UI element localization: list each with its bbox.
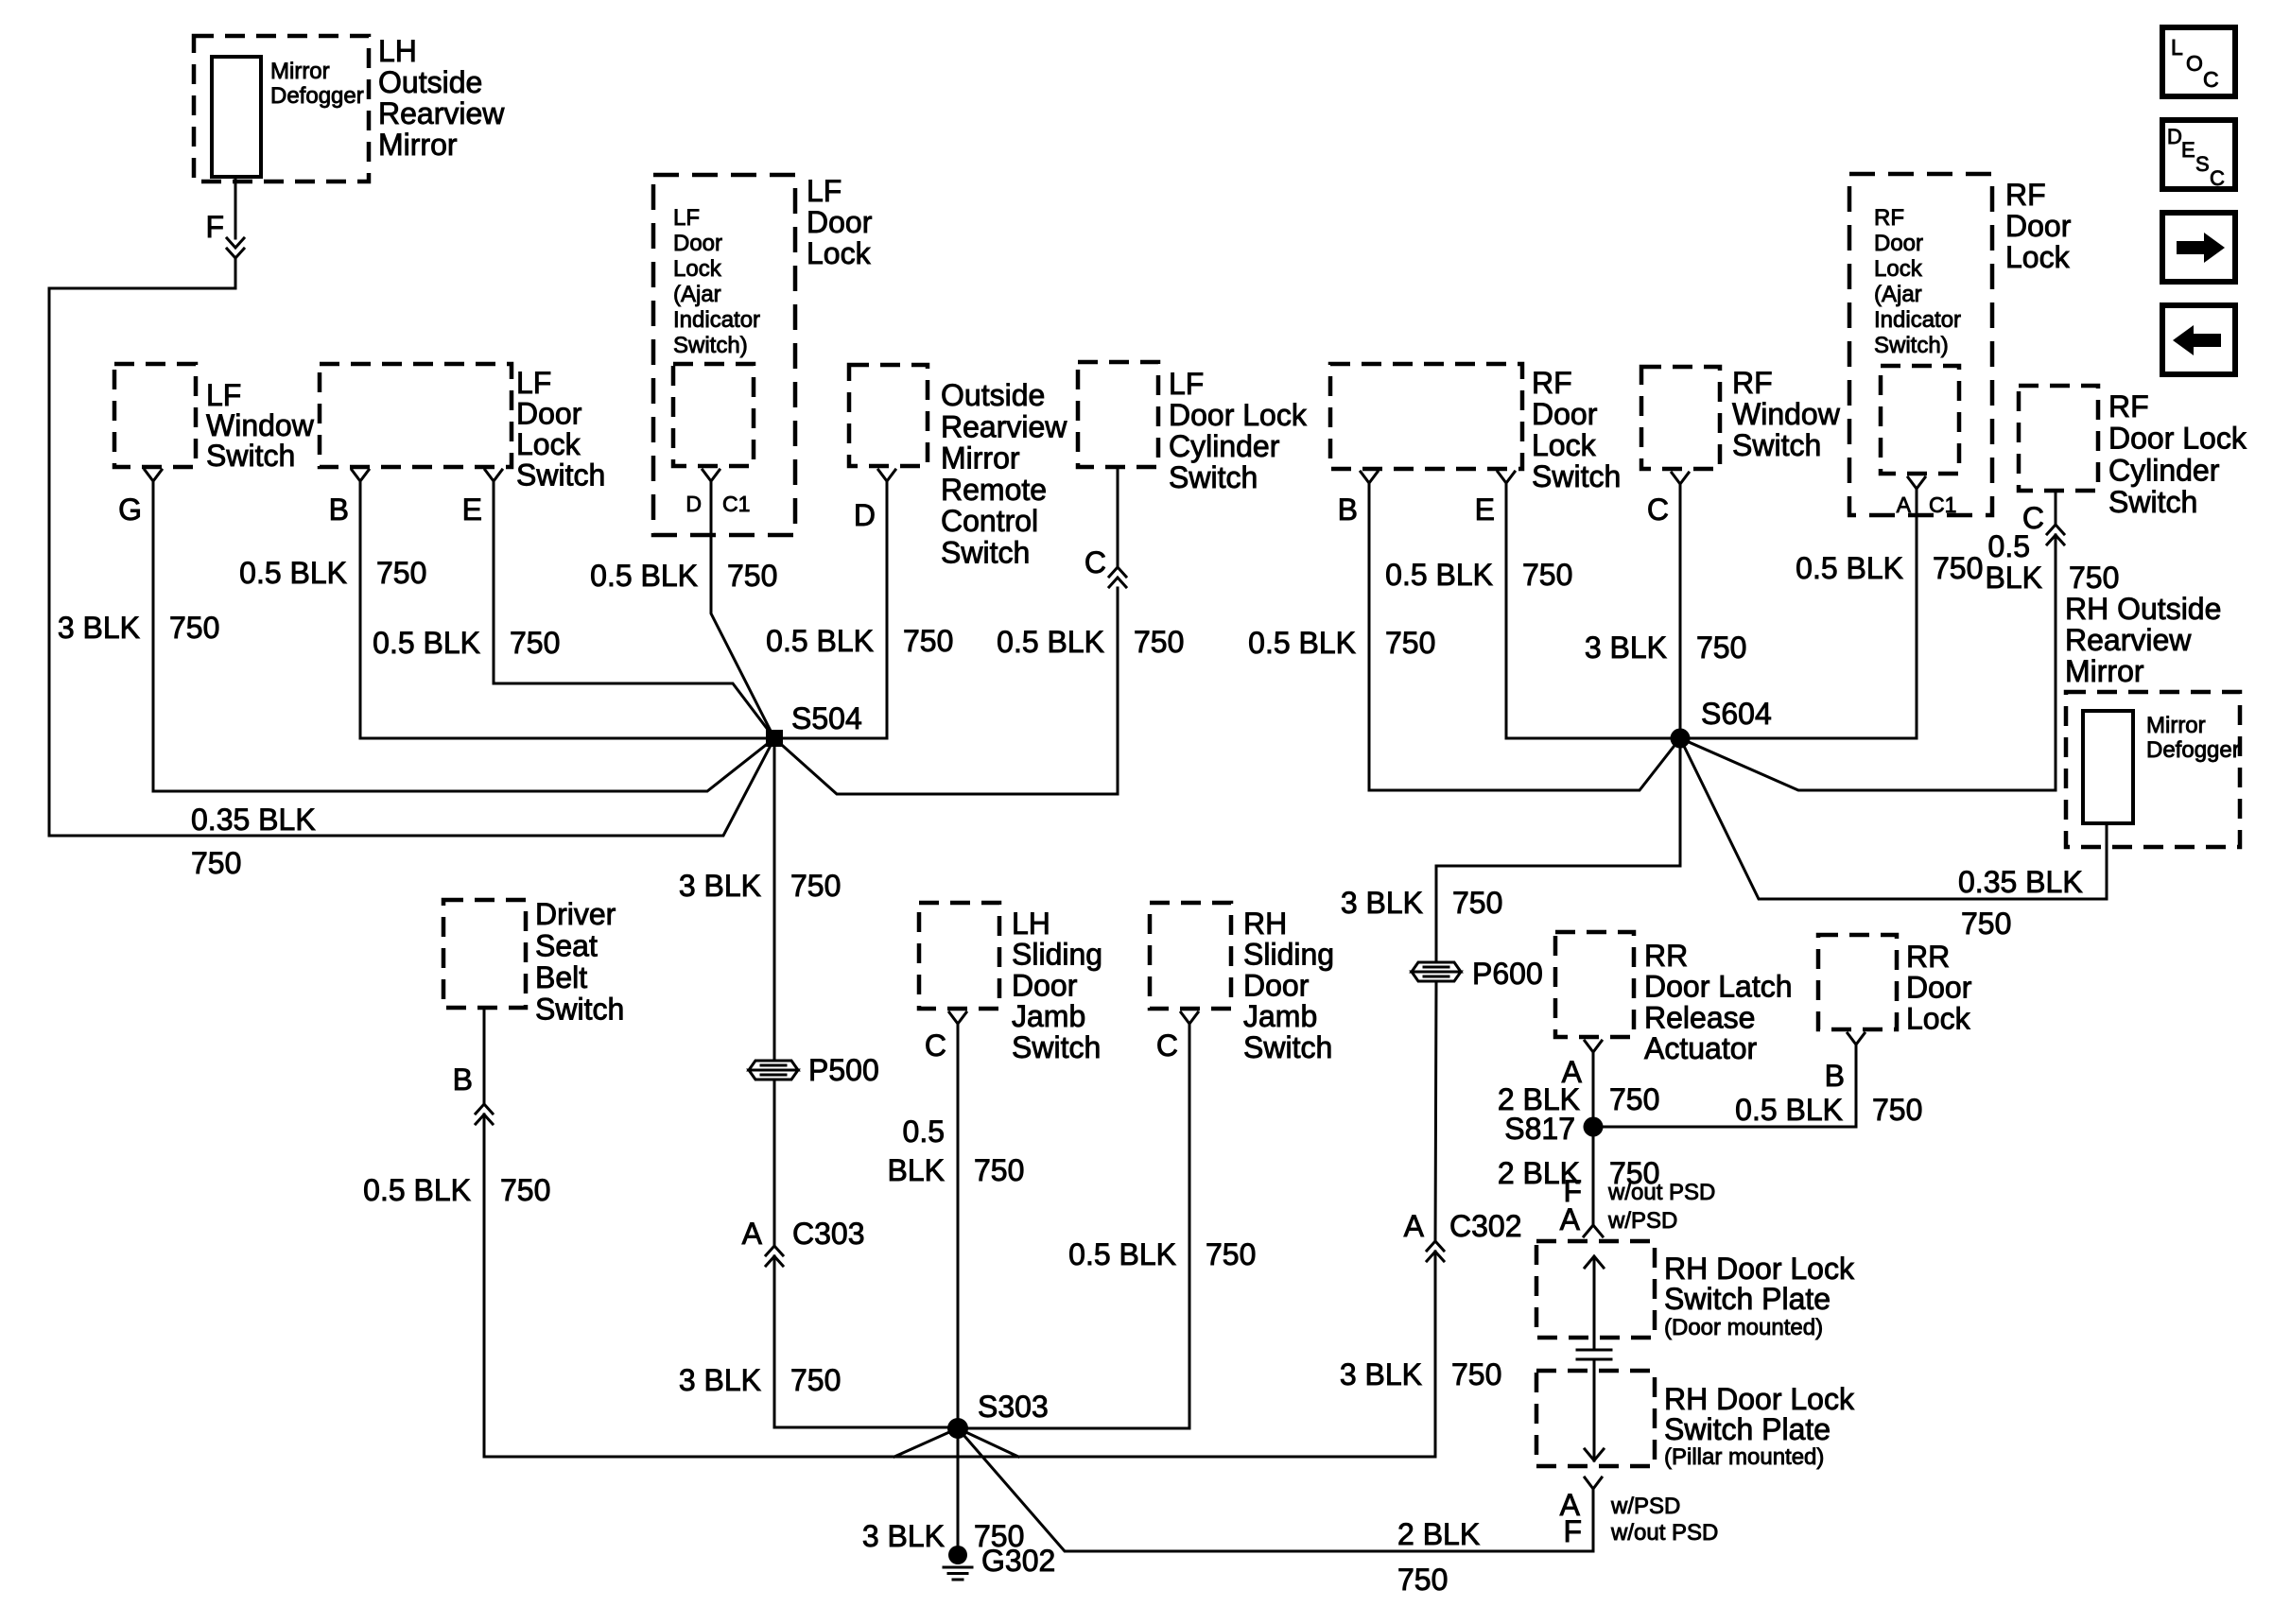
LF Door Lock Cylinder Switch box bbox=[1078, 362, 1308, 494]
wire: RF E to S604 (0.5 BLK 750) bbox=[1385, 484, 1671, 738]
svg-text:RR: RR bbox=[1644, 939, 1688, 973]
svg-text:RF: RF bbox=[1874, 205, 1904, 231]
RF Door Lock Cylinder Switch box bbox=[2019, 386, 2247, 519]
svg-text:Switch): Switch) bbox=[673, 333, 748, 358]
svg-text:S604: S604 bbox=[1701, 697, 1772, 731]
svg-text:750: 750 bbox=[1933, 551, 1983, 585]
svg-text:0.5: 0.5 bbox=[903, 1114, 945, 1149]
pins D / C1 bbox=[685, 470, 750, 516]
wire: LH jamb C to S303 (0.5 BLK 750) bbox=[888, 1025, 1025, 1427]
wire: S504 down 3 BLK 750 bbox=[679, 747, 842, 1060]
svg-text:750: 750 bbox=[2069, 561, 2119, 595]
svg-text:750: 750 bbox=[1385, 626, 1435, 660]
Outside Rearview Mirror Remote Control Switch box bbox=[849, 365, 1067, 570]
svg-text:RF: RF bbox=[1732, 366, 1773, 400]
svg-text:LF: LF bbox=[1169, 367, 1204, 401]
svg-text:0.5 BLK: 0.5 BLK bbox=[997, 625, 1104, 659]
wire: RF window C to S604 (3 BLK 750) bbox=[1585, 485, 1747, 729]
svg-text:Door: Door bbox=[807, 205, 873, 239]
svg-text:Lock: Lock bbox=[807, 236, 872, 270]
pin D (remote control switch) bbox=[854, 470, 895, 532]
svg-text:750: 750 bbox=[1872, 1093, 1922, 1127]
svg-text:Door: Door bbox=[1906, 971, 1972, 1005]
pin C (LH jamb) bbox=[925, 1012, 966, 1063]
svg-text:Mirror: Mirror bbox=[941, 441, 1020, 475]
svg-text:Driver: Driver bbox=[535, 897, 616, 931]
svg-text:Cylinder: Cylinder bbox=[2108, 453, 2220, 487]
svg-text:0.5 BLK: 0.5 BLK bbox=[1735, 1093, 1843, 1127]
svg-text:Defogger: Defogger bbox=[2146, 737, 2240, 763]
svg-text:3 BLK: 3 BLK bbox=[679, 869, 761, 903]
wire: D/C1 to S504 (0.5 BLK 750) bbox=[590, 482, 777, 738]
svg-text:C303: C303 bbox=[792, 1217, 865, 1251]
svg-text:Release: Release bbox=[1644, 1000, 1755, 1034]
svg-text:0.5 BLK: 0.5 BLK bbox=[1796, 551, 1903, 585]
svg-text:0.5 BLK: 0.5 BLK bbox=[766, 624, 874, 658]
RH Sliding Door Jamb Switch box bbox=[1150, 903, 1334, 1064]
svg-text:A: A bbox=[1897, 492, 1912, 517]
svg-text:B: B bbox=[329, 492, 349, 527]
svg-text:RH Outside: RH Outside bbox=[2065, 592, 2221, 626]
svg-text:Door: Door bbox=[1874, 231, 1923, 256]
wire: D to S504 (0.5 BLK 750) bbox=[766, 482, 953, 738]
pin F connector bbox=[205, 210, 244, 258]
svg-text:LH: LH bbox=[378, 34, 417, 68]
wire: S303 to RH door lock plate A/F (2 BLK 750) bbox=[958, 1428, 1593, 1597]
svg-text:L: L bbox=[2171, 35, 2183, 60]
wire: RR door lock B to S817 (0.5 BLK 750) bbox=[1603, 1045, 1922, 1127]
svg-text:Indicator: Indicator bbox=[1874, 307, 1961, 333]
svg-text:Lock: Lock bbox=[1874, 256, 1923, 282]
svg-text:750: 750 bbox=[1522, 558, 1572, 592]
svg-text:0.5 BLK: 0.5 BLK bbox=[373, 626, 480, 660]
svg-text:750: 750 bbox=[1397, 1563, 1448, 1597]
button previous (left arrow) bbox=[2162, 305, 2235, 374]
svg-text:Defogger: Defogger bbox=[270, 83, 364, 109]
svg-text:w/PSD: w/PSD bbox=[1610, 1494, 1680, 1519]
pin E (RF door lock switch) bbox=[1475, 472, 1515, 527]
svg-text:D: D bbox=[2167, 125, 2182, 148]
svg-text:750: 750 bbox=[727, 559, 777, 593]
connector C303 pin A bbox=[742, 1217, 865, 1266]
svg-text:Mirror: Mirror bbox=[2146, 713, 2206, 738]
pin C + inline connector (RF cylinder) bbox=[2022, 501, 2064, 544]
mirror defogger (LH) bbox=[212, 57, 364, 177]
pin C + inline connector bbox=[1084, 545, 1126, 587]
svg-text:Mirror: Mirror bbox=[270, 59, 330, 84]
pin B (RF door lock switch) bbox=[1338, 472, 1378, 527]
svg-text:0.5 BLK: 0.5 BLK bbox=[590, 559, 698, 593]
pin C (RH jamb) bbox=[1156, 1012, 1198, 1063]
wire: P600 to C302 bbox=[1435, 982, 1436, 1241]
wire: B to S504 (0.5 BLK 750) bbox=[239, 482, 774, 738]
svg-text:750: 750 bbox=[1451, 1357, 1501, 1391]
pin B + inline connector bbox=[453, 1063, 493, 1124]
svg-text:RH Door Lock: RH Door Lock bbox=[1664, 1382, 1855, 1416]
svg-text:Door: Door bbox=[1012, 968, 1078, 1002]
pins A / F (w/PSD, w/out PSD) bbox=[1560, 1477, 1719, 1548]
svg-text:C: C bbox=[1084, 545, 1106, 579]
svg-text:LF: LF bbox=[206, 378, 241, 412]
button LOC bbox=[2162, 27, 2235, 96]
svg-text:3 BLK: 3 BLK bbox=[1340, 1357, 1422, 1391]
wire: G to S504 (3 BLK 750) bbox=[58, 482, 774, 791]
svg-text:(Pillar mounted): (Pillar mounted) bbox=[1664, 1444, 1824, 1470]
wire: RF A/C1 to S604 (0.5 BLK 750) bbox=[1690, 490, 1983, 738]
svg-text:Door: Door bbox=[516, 397, 582, 431]
svg-text:Switch: Switch bbox=[1169, 460, 1258, 494]
RF Door Lock Switch box bbox=[1330, 364, 1621, 493]
svg-text:Switch: Switch bbox=[1243, 1030, 1332, 1064]
svg-text:Seat: Seat bbox=[535, 929, 598, 963]
svg-text:C: C bbox=[2203, 67, 2219, 92]
svg-text:A: A bbox=[1404, 1209, 1425, 1243]
svg-text:750: 750 bbox=[1452, 886, 1502, 920]
splice S303 bbox=[947, 1390, 1049, 1439]
svg-text:F: F bbox=[1563, 1514, 1582, 1548]
splice S604 bbox=[1671, 697, 1772, 749]
svg-text:Mirror: Mirror bbox=[378, 128, 458, 162]
svg-text:RR: RR bbox=[1906, 940, 1950, 974]
svg-text:LF: LF bbox=[516, 366, 551, 400]
svg-text:RF: RF bbox=[2005, 178, 2046, 212]
svg-text:B: B bbox=[1825, 1059, 1845, 1093]
svg-text:Sliding: Sliding bbox=[1012, 938, 1102, 972]
svg-text:LH: LH bbox=[1012, 907, 1050, 941]
svg-text:750: 750 bbox=[1609, 1082, 1659, 1116]
svg-text:750: 750 bbox=[790, 1363, 841, 1397]
svg-text:C: C bbox=[2210, 166, 2225, 190]
svg-text:Switch Plate: Switch Plate bbox=[1664, 1282, 1831, 1316]
svg-text:750: 750 bbox=[376, 556, 426, 590]
RH Outside Rearview Mirror box bbox=[2065, 592, 2240, 847]
svg-text:Lock: Lock bbox=[516, 427, 581, 461]
svg-text:F: F bbox=[205, 210, 224, 244]
svg-text:E: E bbox=[462, 492, 482, 527]
LF Door Lock Switch box bbox=[320, 364, 605, 492]
wire: E to S504 (0.5 BLK 750) bbox=[373, 482, 774, 738]
LF Window Switch box bbox=[114, 364, 315, 473]
svg-text:Switch: Switch bbox=[535, 993, 624, 1027]
wire: S604 down to P600 (3 BLK 750) bbox=[1341, 747, 1680, 961]
svg-text:RF: RF bbox=[2108, 389, 2149, 423]
svg-text:LF: LF bbox=[673, 205, 700, 231]
svg-text:750: 750 bbox=[1206, 1237, 1256, 1271]
svg-text:Switch: Switch bbox=[516, 458, 605, 492]
svg-text:750: 750 bbox=[191, 846, 241, 880]
svg-text:Actuator: Actuator bbox=[1644, 1031, 1758, 1065]
svg-text:2 BLK: 2 BLK bbox=[1397, 1517, 1480, 1551]
wire: long lower run with S303 taps bbox=[484, 1428, 1435, 1457]
svg-text:C1: C1 bbox=[1929, 492, 1956, 517]
connector C302 pin A bbox=[1404, 1209, 1522, 1261]
svg-text:750: 750 bbox=[1696, 631, 1746, 665]
svg-text:B: B bbox=[1338, 492, 1358, 527]
svg-text:B: B bbox=[453, 1063, 473, 1097]
wire: cylinder C to S504 (0.5 BLK 750) bbox=[774, 467, 1184, 794]
svg-text:3 BLK: 3 BLK bbox=[58, 611, 140, 645]
RH Door Lock Switch Plate (Door mounted) box bbox=[1536, 1241, 1855, 1340]
wire: LH mirror F to 0.35 BLK run bbox=[49, 177, 235, 836]
svg-text:RH: RH bbox=[1243, 907, 1287, 941]
svg-text:w/PSD: w/PSD bbox=[1607, 1208, 1677, 1234]
svg-text:Outside: Outside bbox=[941, 378, 1045, 412]
svg-text:Cylinder: Cylinder bbox=[1169, 429, 1280, 463]
svg-text:0.5 BLK: 0.5 BLK bbox=[239, 556, 347, 590]
svg-text:0.5 BLK: 0.5 BLK bbox=[1068, 1237, 1176, 1271]
wire: actuator A to S817 (2 BLK 750) bbox=[1498, 1053, 1660, 1117]
wire: seat belt B to S303 run (0.5 BLK 750) bbox=[363, 1008, 550, 1457]
svg-text:Mirror: Mirror bbox=[2065, 654, 2144, 688]
svg-text:O: O bbox=[2186, 51, 2203, 76]
svg-text:Rearview: Rearview bbox=[2065, 623, 2192, 657]
svg-text:Sliding: Sliding bbox=[1243, 938, 1334, 972]
RF Door Lock (Ajar Indicator Switch) box bbox=[1849, 174, 2072, 515]
svg-text:C: C bbox=[925, 1028, 946, 1063]
splice S817 bbox=[1504, 1112, 1603, 1146]
wire: RH jamb C to S303 (0.5 BLK 750) bbox=[968, 1025, 1256, 1428]
svg-text:S303: S303 bbox=[978, 1390, 1049, 1424]
wire: RH defogger to S604 (0.35 BLK 750) bbox=[1680, 738, 2107, 941]
svg-text:Switch: Switch bbox=[1732, 428, 1821, 462]
svg-text:S817: S817 bbox=[1504, 1112, 1575, 1146]
button DESC bbox=[2162, 120, 2235, 190]
wire: C302 to S303 run (3 BLK 750) bbox=[1340, 1252, 1502, 1457]
LH Outside Rearview Mirror box bbox=[194, 34, 505, 181]
svg-text:Lock: Lock bbox=[673, 256, 722, 282]
svg-text:Control: Control bbox=[941, 504, 1038, 538]
inline connector P600 bbox=[1412, 957, 1543, 991]
svg-text:Door: Door bbox=[673, 231, 722, 256]
RR Door Lock box bbox=[1818, 935, 1972, 1035]
svg-text:S: S bbox=[2195, 152, 2210, 176]
svg-text:E: E bbox=[2181, 138, 2195, 162]
svg-text:BLK: BLK bbox=[1986, 561, 2042, 595]
wire: S817 down to switch plate (2 BLK 750) bbox=[1498, 1136, 1660, 1225]
svg-text:P600: P600 bbox=[1472, 957, 1543, 991]
svg-text:Switch: Switch bbox=[2108, 485, 2197, 519]
RH Door Lock Switch Plate (Pillar mounted) box bbox=[1536, 1371, 1855, 1470]
svg-text:G302: G302 bbox=[981, 1544, 1055, 1578]
svg-text:D: D bbox=[685, 492, 702, 516]
svg-text:E: E bbox=[1475, 492, 1495, 527]
wire: P500 to C303 bbox=[679, 1080, 842, 1397]
svg-text:Rearview: Rearview bbox=[378, 96, 505, 130]
svg-text:A: A bbox=[742, 1217, 763, 1251]
svg-text:Lock: Lock bbox=[1532, 428, 1597, 462]
svg-text:Lock: Lock bbox=[1906, 1001, 1971, 1035]
svg-text:Indicator: Indicator bbox=[673, 307, 760, 333]
svg-text:w/out PSD: w/out PSD bbox=[1610, 1520, 1718, 1546]
svg-text:0.5 BLK: 0.5 BLK bbox=[363, 1173, 471, 1207]
svg-text:C1: C1 bbox=[722, 492, 750, 516]
button next (right arrow) bbox=[2162, 213, 2235, 282]
LF Door Lock (Ajar Indicator Switch) box bbox=[653, 174, 873, 535]
svg-text:Switch: Switch bbox=[941, 536, 1030, 570]
svg-text:3 BLK: 3 BLK bbox=[1585, 631, 1667, 665]
svg-text:750: 750 bbox=[790, 869, 841, 903]
svg-text:D: D bbox=[854, 498, 876, 532]
svg-text:3 BLK: 3 BLK bbox=[1341, 886, 1423, 920]
pin B bbox=[329, 470, 369, 527]
RF Window Switch box bbox=[1641, 366, 1841, 469]
svg-text:Door Lock: Door Lock bbox=[2108, 422, 2247, 456]
svg-text:C: C bbox=[1647, 492, 1669, 527]
wire: 0.35 BLK 750 left run bbox=[49, 738, 774, 880]
svg-text:Switch Plate: Switch Plate bbox=[1664, 1412, 1831, 1446]
svg-text:3 BLK: 3 BLK bbox=[679, 1363, 761, 1397]
pin E bbox=[462, 470, 502, 527]
svg-text:0.35 BLK: 0.35 BLK bbox=[191, 803, 316, 837]
Driver Seat Belt Switch box bbox=[443, 897, 624, 1027]
svg-text:Door: Door bbox=[1243, 968, 1310, 1002]
svg-text:3 BLK: 3 BLK bbox=[862, 1519, 945, 1553]
LH Sliding Door Jamb Switch box bbox=[919, 903, 1102, 1064]
pin B (RR door lock) bbox=[1825, 1033, 1865, 1093]
svg-text:A: A bbox=[1560, 1202, 1581, 1236]
svg-text:750: 750 bbox=[510, 626, 560, 660]
splice S504 bbox=[766, 701, 862, 747]
svg-text:Switch: Switch bbox=[1532, 459, 1621, 493]
pin A (actuator) bbox=[1562, 1041, 1602, 1089]
svg-text:0.5 BLK: 0.5 BLK bbox=[1385, 558, 1493, 592]
svg-text:Jamb: Jamb bbox=[1243, 999, 1317, 1033]
pins F / A (w/out PSD, w/PSD) bbox=[1560, 1174, 1716, 1236]
svg-text:0.5 BLK: 0.5 BLK bbox=[1248, 626, 1356, 660]
svg-text:Door: Door bbox=[1532, 397, 1598, 431]
inline connector P500 bbox=[749, 1053, 879, 1087]
svg-text:Jamb: Jamb bbox=[1012, 999, 1085, 1033]
svg-text:(Ajar: (Ajar bbox=[1874, 282, 1922, 307]
svg-text:S504: S504 bbox=[791, 701, 862, 735]
switch plate contact arrows bbox=[1577, 1256, 1611, 1460]
svg-text:0.5: 0.5 bbox=[1988, 529, 2030, 563]
svg-text:RF: RF bbox=[1532, 366, 1572, 400]
svg-text:BLK: BLK bbox=[888, 1153, 945, 1187]
svg-text:750: 750 bbox=[500, 1173, 550, 1207]
svg-text:w/out PSD: w/out PSD bbox=[1607, 1180, 1715, 1205]
svg-text:(Door mounted): (Door mounted) bbox=[1664, 1315, 1823, 1340]
wire: C303 to S303 bbox=[774, 1256, 958, 1427]
wire: S303 to G302 (3 BLK 750) bbox=[862, 1437, 1025, 1553]
svg-text:750: 750 bbox=[169, 611, 219, 645]
svg-text:(Ajar: (Ajar bbox=[673, 282, 721, 307]
svg-text:P500: P500 bbox=[808, 1053, 879, 1087]
svg-text:750: 750 bbox=[1961, 907, 2011, 941]
svg-text:Switch: Switch bbox=[206, 439, 295, 473]
wire: RF cylinder C to S604 (0.5 BLK 750) bbox=[1680, 491, 2119, 790]
svg-text:Door: Door bbox=[2005, 209, 2072, 243]
svg-text:Belt: Belt bbox=[535, 960, 587, 994]
svg-text:Remote: Remote bbox=[941, 473, 1047, 507]
svg-text:C302: C302 bbox=[1449, 1209, 1522, 1243]
svg-text:Rearview: Rearview bbox=[941, 409, 1067, 443]
svg-text:750: 750 bbox=[903, 624, 953, 658]
svg-text:Window: Window bbox=[206, 408, 315, 442]
svg-text:Door Lock: Door Lock bbox=[1169, 398, 1308, 432]
pin G bbox=[118, 470, 162, 527]
svg-text:LF: LF bbox=[807, 174, 842, 208]
RR Door Latch Release Actuator box bbox=[1555, 932, 1793, 1065]
svg-text:RH Door Lock: RH Door Lock bbox=[1664, 1252, 1855, 1286]
pins A / C1 (RF ajar) bbox=[1897, 477, 1957, 517]
pin C (RF window switch) bbox=[1647, 473, 1689, 527]
svg-text:750: 750 bbox=[1134, 625, 1184, 659]
wire: RF B to S604 (0.5 BLK 750) bbox=[1248, 484, 1680, 790]
svg-text:Door Latch: Door Latch bbox=[1644, 970, 1793, 1004]
svg-text:0.35 BLK: 0.35 BLK bbox=[1958, 865, 2083, 899]
svg-text:Outside: Outside bbox=[378, 65, 482, 99]
svg-text:G: G bbox=[118, 492, 142, 527]
svg-text:Switch): Switch) bbox=[1874, 333, 1949, 358]
mirror defogger (RH) bbox=[2083, 711, 2240, 823]
svg-text:Window: Window bbox=[1732, 397, 1841, 431]
svg-text:C: C bbox=[1156, 1028, 1178, 1063]
svg-text:750: 750 bbox=[974, 1153, 1024, 1187]
ground G302 bbox=[944, 1544, 1055, 1580]
svg-text:Switch: Switch bbox=[1012, 1030, 1101, 1064]
svg-text:Lock: Lock bbox=[2005, 240, 2071, 274]
